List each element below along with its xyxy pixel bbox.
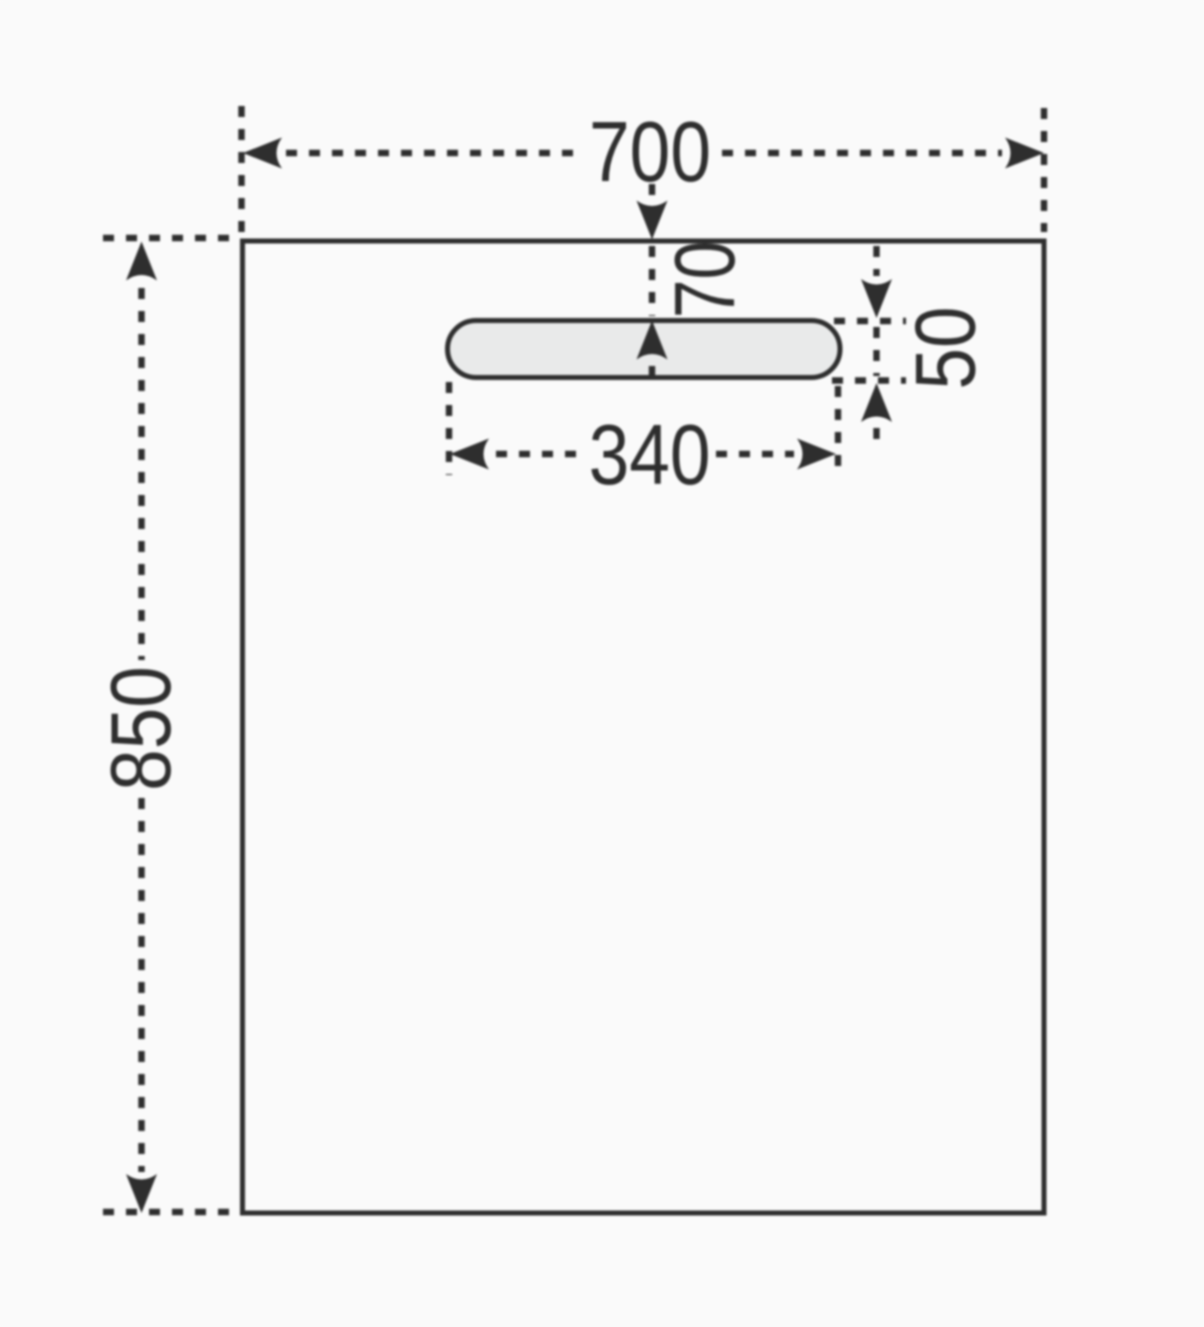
svg-text:700: 700 bbox=[589, 104, 711, 199]
svg-text:50: 50 bbox=[898, 306, 992, 389]
svg-text:70: 70 bbox=[659, 241, 753, 319]
svg-text:850: 850 bbox=[94, 666, 188, 791]
svg-text:340: 340 bbox=[589, 407, 711, 502]
